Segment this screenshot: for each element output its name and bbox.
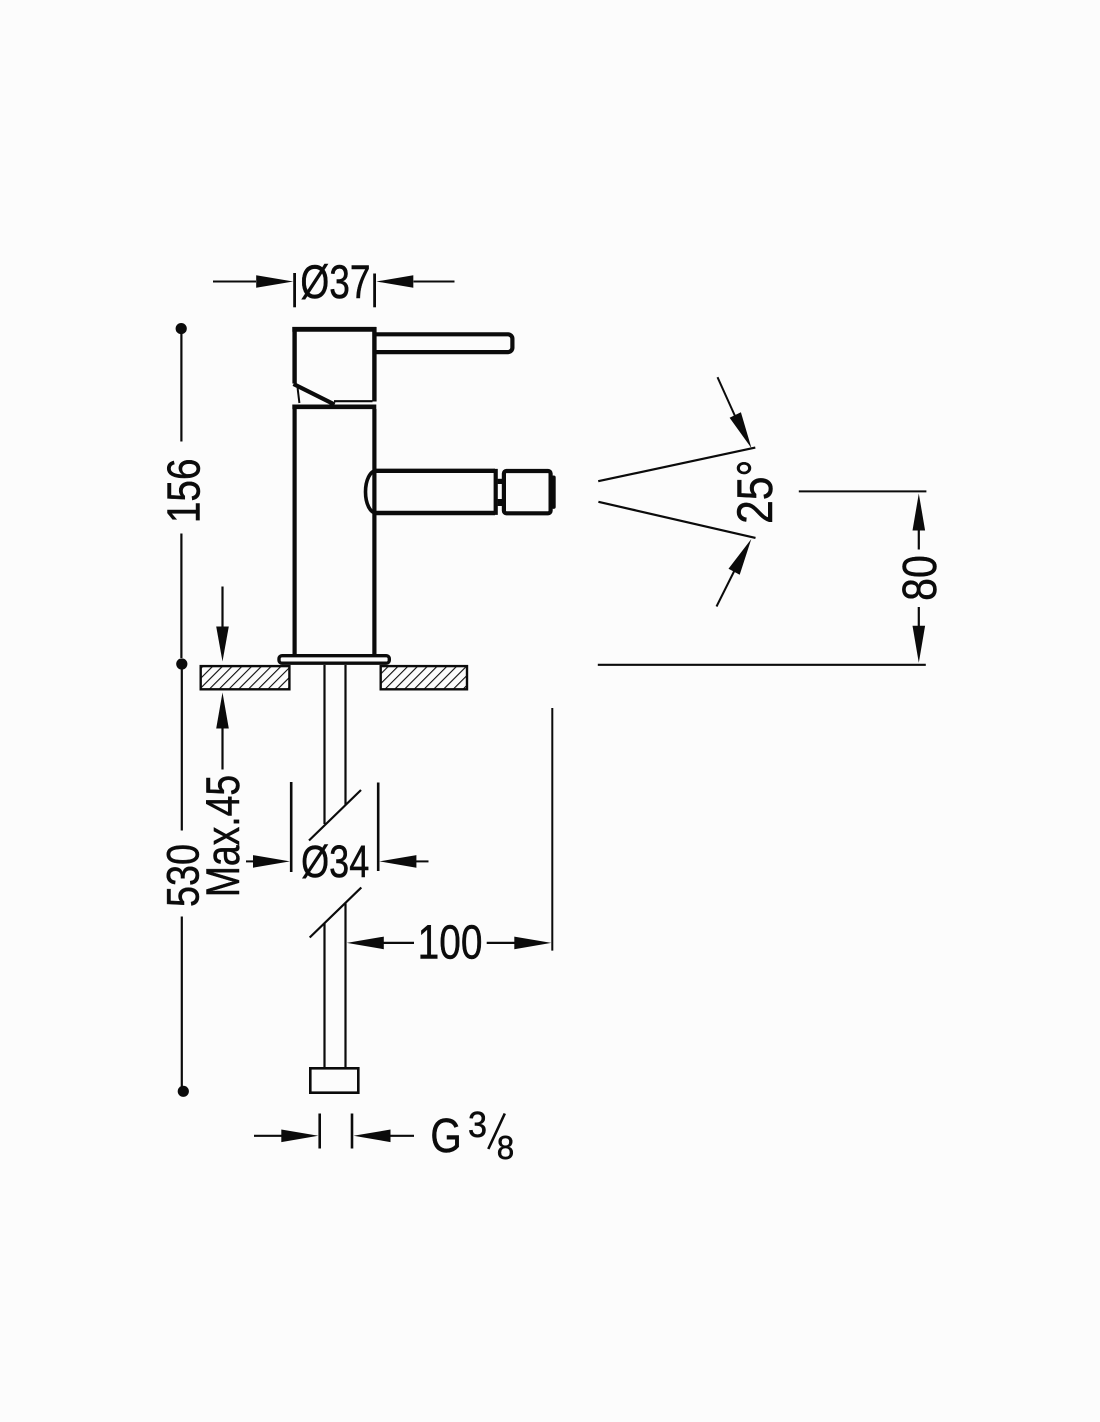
dim Ø37 arrowhead right bbox=[376, 275, 413, 288]
dim 100 line left bbox=[383, 942, 414, 944]
dim Ø34 arrowhead right bbox=[379, 855, 416, 868]
ref line nozzle axis bbox=[799, 490, 927, 492]
dim G3/8 arrowhead right bbox=[354, 1130, 391, 1143]
base flange bbox=[279, 656, 389, 664]
deck slab right (hatched) bbox=[381, 666, 467, 689]
svg-text:8: 8 bbox=[497, 1129, 514, 1166]
svg-text:25°: 25° bbox=[727, 460, 783, 524]
svg-text:100: 100 bbox=[418, 916, 483, 970]
dim chain node dot top bbox=[176, 323, 187, 334]
dim Max.45 lower arrowhead bbox=[216, 693, 229, 729]
angle dim lower arrowhead bbox=[729, 539, 752, 575]
dim G3/8 line right bbox=[390, 1135, 414, 1137]
faucet body top joint line bbox=[292, 404, 376, 409]
faucet cap bottom diagonal cut bbox=[294, 384, 335, 405]
spout-aerator joint lower tab bbox=[498, 499, 503, 506]
dim 530 line upper bbox=[181, 668, 183, 831]
dim Ø37 line left bbox=[213, 281, 256, 283]
svg-text:Ø37: Ø37 bbox=[300, 256, 370, 308]
dim chain node dot bottom bbox=[178, 1086, 189, 1097]
spout-aerator joint upper tab bbox=[498, 479, 503, 484]
dim Ø37 extension tick left bbox=[293, 273, 296, 307]
faucet cap top edge bbox=[292, 327, 376, 332]
dim 80 line upper bbox=[918, 529, 920, 550]
dim Max.45 upper leader line bbox=[221, 587, 223, 628]
dim Ø37 extension tick right bbox=[373, 274, 376, 308]
supply pipe right wall upper bbox=[344, 665, 346, 805]
faucet cap bottom thin line bbox=[334, 400, 373, 402]
dim G3/8 line left bbox=[254, 1135, 283, 1137]
angle dim upper arrowhead bbox=[730, 412, 752, 448]
aerator nozzle body bbox=[504, 471, 551, 513]
thread label fraction slash bbox=[488, 1114, 505, 1150]
spout upper edge bbox=[376, 469, 495, 473]
inlet fitting bbox=[310, 1068, 358, 1092]
dim 80 lower arrowhead bbox=[913, 626, 926, 663]
faucet cap right edge bbox=[372, 327, 376, 402]
supply pipe right wall lower bbox=[344, 904, 346, 1068]
dim 100 extension line right bbox=[551, 708, 553, 951]
dim Max.45 lower leader line bbox=[221, 728, 223, 770]
ref line deck level bbox=[598, 664, 926, 666]
dim Ø34 line right bbox=[416, 860, 429, 862]
faucet cap wedge left line bbox=[298, 388, 300, 403]
dim G3/8 arrowhead left bbox=[281, 1130, 318, 1143]
dim Ø37 arrowhead left bbox=[256, 275, 293, 288]
dim 80 line lower bbox=[918, 607, 920, 627]
dim Max.45 upper arrowhead bbox=[216, 627, 229, 662]
dim Ø37 line right bbox=[414, 281, 455, 283]
dim chain node dot middle bbox=[176, 658, 187, 669]
dim Ø34 line left bbox=[246, 860, 257, 862]
dim G3/8 extension tick right bbox=[351, 1114, 354, 1149]
dim Ø34 arrowhead left bbox=[253, 855, 290, 868]
svg-text:3: 3 bbox=[468, 1105, 487, 1145]
spray lower line bbox=[598, 502, 755, 538]
dim 100 arrowhead right bbox=[514, 937, 551, 950]
spout left rounded end bbox=[366, 471, 377, 513]
faucet cap left edge bbox=[292, 327, 296, 384]
dim 156 line upper bbox=[180, 331, 182, 442]
dim 100 line right bbox=[487, 942, 515, 944]
spout right end edge bbox=[494, 469, 498, 515]
dim 100 arrowhead left bbox=[347, 937, 384, 950]
svg-text:156: 156 bbox=[158, 458, 210, 523]
supply pipe left wall lower bbox=[323, 924, 325, 1068]
dim 530 line lower bbox=[181, 917, 183, 1088]
dim 80 upper arrowhead bbox=[913, 494, 926, 531]
dim Ø34 extension tick right bbox=[377, 783, 380, 872]
aerator end cap bar bbox=[551, 476, 555, 509]
spout lower edge bbox=[376, 511, 495, 515]
dim 156 line lower bbox=[180, 534, 182, 659]
dim G3/8 extension tick left bbox=[318, 1114, 321, 1149]
deck slab left (hatched) bbox=[201, 666, 290, 689]
handle lever bbox=[376, 334, 513, 352]
angle dim upper leader bbox=[718, 377, 736, 416]
svg-text:Max.45: Max.45 bbox=[197, 775, 249, 897]
pipe break slash lower bbox=[310, 888, 362, 938]
faucet body right edge bbox=[372, 409, 376, 654]
faucet body left edge bbox=[293, 409, 297, 654]
spray upper line bbox=[598, 448, 755, 482]
angle dim lower leader bbox=[717, 571, 735, 607]
svg-text:Ø34: Ø34 bbox=[301, 836, 369, 887]
pipe break slash upper bbox=[309, 790, 361, 841]
svg-text:G: G bbox=[430, 1110, 461, 1163]
svg-text:80: 80 bbox=[894, 555, 947, 601]
dim Ø34 extension tick left bbox=[290, 782, 293, 872]
supply pipe left wall upper bbox=[323, 665, 325, 824]
